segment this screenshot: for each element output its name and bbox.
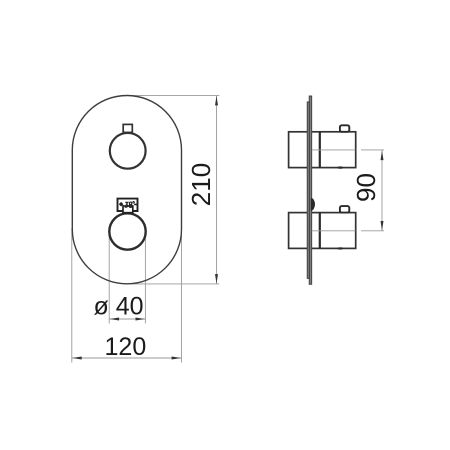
temperature label plate outline: [118, 199, 138, 211]
side view bottom knob divider: [319, 213, 321, 249]
dimension line 210: [216, 96, 218, 284]
extension line 210 bottom: [131, 283, 219, 285]
top knob tab: [123, 124, 132, 132]
arrow 210 top: [215, 96, 218, 106]
side view bottom knob button: [340, 206, 349, 213]
svg-text:120: 120: [105, 333, 147, 361]
extension line 210 top: [127, 95, 219, 97]
arrow 90 bottom: [381, 221, 384, 231]
side view top knob body: [289, 132, 356, 168]
centerline top knob segment 1: [312, 149, 356, 151]
side view wall plate back bar: [309, 96, 312, 284]
arrow 90 top: [381, 151, 384, 161]
side view top knob divider: [319, 132, 321, 168]
side view top knob button: [340, 125, 349, 132]
extension line dia40 left: [108, 232, 110, 323]
front view trim plate (stadium outline): [72, 96, 181, 284]
extension line 120 left: [71, 228, 73, 363]
dimension line 120: [72, 357, 182, 359]
label dash mark: [134, 204, 137, 206]
centerline top knob segment 2: [361, 149, 384, 151]
side view top knob bottom tick: [337, 166, 343, 168]
side view wall plate front bar: [307, 102, 309, 279]
centerline bottom knob segment 2: [361, 230, 384, 232]
dimension line 90: [381, 150, 383, 231]
svg-text:ø 40: ø 40: [93, 293, 143, 321]
extension line 120 right: [181, 228, 183, 363]
centerline bottom knob segment 1: [312, 230, 356, 232]
side view temperature label blob: [311, 198, 315, 211]
thermostat knob circle (front view): [109, 213, 145, 249]
label digit 3: [125, 202, 128, 207]
label degree mark: [133, 202, 135, 204]
top knob circle (front view): [110, 133, 146, 169]
arrow dia40 right: [136, 318, 146, 321]
side view bottom knob bottom tick: [337, 247, 343, 249]
side view bottom knob body: [289, 213, 356, 249]
extension line dia40 right: [144, 232, 146, 323]
arrow dia40 left: [110, 318, 120, 321]
dimension line dia40: [109, 318, 145, 320]
arrow 210 bottom: [215, 274, 218, 284]
arrow 120 right: [172, 357, 182, 360]
thermostat knob tab: [123, 206, 133, 213]
arrow 120 left: [72, 357, 82, 360]
svg-text:90: 90: [351, 173, 381, 202]
label diamond mark: [119, 202, 124, 207]
svg-text:210: 210: [186, 163, 216, 206]
label digit 8: [129, 202, 132, 205]
